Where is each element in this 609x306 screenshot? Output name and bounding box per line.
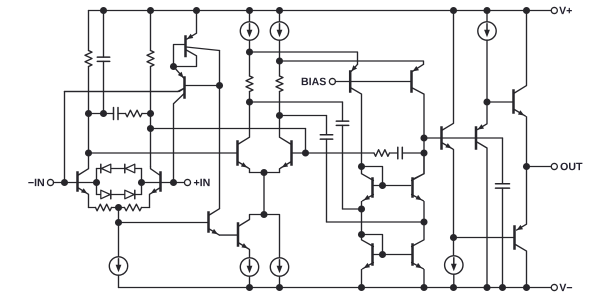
wire driver base line (y137.5) [424,137,503,139]
wire Q12/Q13 base line [373,185,410,187]
node I4 out [483,98,490,105]
resistor R8 [374,150,398,157]
wire x423.5 column mid [414,138,425,179]
node Q12 collector junction [358,163,365,170]
wire Q2 base to +IN [161,182,184,184]
current source I3 [270,11,288,62]
resistor R1 [85,11,92,154]
capacitor C4 [336,102,361,209]
wire diode network to Q2 base [142,182,160,184]
wire diode top row [97,168,142,170]
terminal BIAS [329,78,335,84]
node Q5 base junction [216,82,223,89]
node OUT junction [523,163,530,170]
node C4 junction [358,205,365,212]
wire I6 to rail [249,276,251,287]
terminal V- [551,284,557,290]
transistor Q19 [515,167,527,288]
transistor Q12 [362,167,374,210]
resistor R7 [276,61,283,116]
wire BIAS line [335,81,410,83]
transistor Q11 [412,64,425,138]
current source I4 [478,11,496,103]
node top-rail junction dots [100,7,530,14]
wire diode bottom row [97,194,142,196]
diode D4 [125,190,135,199]
node Q11-collector/driver-base junction [420,134,427,141]
resistor R4 right emitter [119,204,150,211]
wire tail down to I1 [118,223,120,257]
node -IN junction [61,179,68,186]
wire -IN lead [53,182,76,184]
wire base line to Q5 (y91) [65,88,185,91]
node I3 out [276,57,283,64]
label V- [559,284,572,291]
diode D2 [125,164,135,173]
node Q14 collector junction [358,231,365,238]
node emitter-resistor junction [115,204,122,211]
wire R7 node to C3 (y115) [280,115,327,117]
node tail junction [115,219,122,226]
wire diff emitters join [250,172,280,174]
transistor Q4 [174,11,220,67]
wire OUT lead [527,166,552,168]
capacitor C1 [97,11,109,114]
transistor Q18 [476,102,487,288]
node Q4/Q5 diode node [170,63,177,70]
transistor Q16 [514,11,527,167]
transistor Q6 [209,209,238,235]
wire comp line left [306,152,375,154]
resistor R3 left emitter [89,204,119,211]
wire tail stub [118,208,120,223]
wire diode box right stubs [141,169,143,195]
transistor Q5 [65,67,220,183]
wire bottom V- rail [119,287,552,289]
wire first-stage left collector line (y152.5) [89,152,237,154]
current source I7 [445,238,463,288]
node diode network left [93,179,100,186]
wire top V+ rail [89,10,552,12]
wire -IN vertical (x64) [64,92,66,183]
terminal +IN [184,179,190,185]
transistor Q9 [280,116,306,173]
current source I5 [270,258,288,276]
label V+ [559,7,572,14]
capacitor C2 series [89,108,119,120]
wire to I5 [264,215,280,258]
terminal V+ [551,7,557,13]
capacitor C6 [496,138,510,288]
node Q17 emitter junction [450,234,457,241]
node R7 bottom [276,112,283,119]
wire R6 node to C4 (y101.5) [250,101,343,103]
transistor Q14 [362,235,374,288]
wire I1 to V- rail [118,275,120,287]
node I2 out [246,48,253,55]
node R6 bottom [246,98,253,105]
node Q14/Q15 base junction [379,251,386,258]
node diff tail top [260,169,267,176]
node diff base right [302,149,309,156]
wire Q12 diode loop [362,167,383,186]
wire tail to Q6 base (y222) [119,222,208,224]
resistor R5 series [118,110,151,117]
current source I2 [240,11,258,53]
transistor Q8 [238,102,250,173]
node diode network right [138,179,145,186]
terminal OUT [551,163,557,169]
label BIAS [302,78,326,86]
wire Q14/Q15 base line [373,254,411,256]
label +IN [194,179,210,186]
wire x361 column [361,209,363,235]
wire first-stage right collector line (y128) [151,129,306,154]
capacitor C3 [320,116,424,223]
node C3 junction [420,218,427,225]
transistor Q2 [150,167,161,208]
node comp junction [420,149,427,156]
wire x219 collector column [219,51,221,209]
terminal -IN [47,179,53,185]
wire Q14 diode loop [362,235,383,255]
node +IN junction [170,179,177,186]
transistor Q1 [78,153,89,208]
node dots on x88/x103/x150 columns [85,110,154,157]
diode D3 [101,190,111,199]
label OUT [561,163,583,171]
transistor Q15 [412,222,424,288]
wire I2 to Q10 emitter (y51.5) [250,52,358,64]
wire I5 to rail [279,276,281,287]
node Q12/Q13 base junction [379,182,386,189]
transistor Q13 [412,153,424,222]
wire I3 to Q11 emitter (y60.5) [280,61,424,64]
wire Q1 base to diode network [78,182,96,184]
capacitor C5 [398,147,424,159]
label -IN [28,179,44,186]
wire Q19 base line (y237) [454,237,514,239]
transistor Q10 [350,64,361,166]
transistor Q7 [238,215,264,258]
wire I4 to Q16 base [487,101,513,103]
wire diff tail vertical [263,173,265,215]
transistor Q17 [442,11,454,238]
resistor R2 [147,11,154,167]
node bottom-rail junction dots [246,284,530,291]
resistor R6 [246,52,253,102]
current source I1 [109,257,127,275]
wire diode box left stubs [96,169,98,195]
diode D1 [101,164,111,173]
node Q7 collector junction [260,211,267,218]
current source I6 [240,258,258,276]
